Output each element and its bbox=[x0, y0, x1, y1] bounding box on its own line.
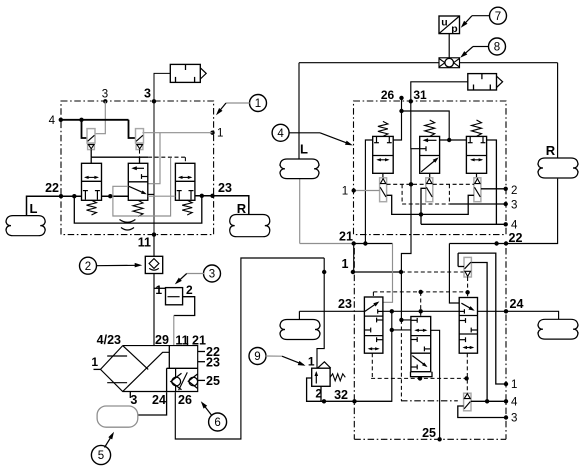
dash-dot pilot row upper (lower block) bbox=[373, 290, 469, 295]
label 26 bbox=[381, 88, 395, 102]
spring above valve C bbox=[472, 120, 482, 136]
svg-text:25: 25 bbox=[206, 374, 220, 388]
wire port 22 to R bellows bbox=[506, 179, 558, 244]
wire from junction to limiter 9 bbox=[317, 258, 326, 368]
limiter 9 port labels bbox=[308, 355, 323, 401]
label 4 left bbox=[49, 115, 56, 127]
svg-text:31: 31 bbox=[413, 88, 427, 102]
svg-text:8: 8 bbox=[494, 42, 500, 54]
pressure limiting valve 9 bbox=[312, 362, 331, 387]
wire port 24 to lower R bellows bbox=[506, 311, 559, 319]
solenoid S1 block1 bbox=[87, 129, 95, 150]
air cylinder (left, port 3) bbox=[170, 64, 206, 82]
L bellows feed gray wire to port 21 bbox=[300, 179, 354, 244]
svg-text:3: 3 bbox=[511, 200, 517, 212]
pilot C output wire to port 2 bbox=[481, 187, 508, 191]
spring above valve B bbox=[425, 120, 435, 136]
label 3 bold bbox=[144, 87, 151, 101]
dash-dot link 32 to pilots bbox=[401, 400, 458, 402]
solenoid S2 block1 bbox=[136, 129, 144, 150]
port 21-22 bus bbox=[352, 241, 509, 245]
wire comp7 to comp8 bbox=[448, 34, 450, 58]
svg-text:5: 5 bbox=[98, 450, 104, 462]
label 32 bbox=[334, 388, 348, 402]
pilot solenoid below valve B bbox=[426, 173, 433, 201]
lower R air bellows bbox=[538, 319, 578, 339]
callout circle 5 with leader bbox=[91, 432, 114, 465]
wire 24 to reservoir bbox=[138, 392, 167, 415]
dashed pilot row lower bbox=[371, 376, 469, 380]
levelling valve block border (dash-dot) bbox=[61, 101, 214, 235]
svg-text:2: 2 bbox=[186, 283, 193, 297]
svg-text:3: 3 bbox=[209, 269, 215, 281]
label 22 left bbox=[45, 181, 59, 195]
valve D pilot dashed line bbox=[372, 292, 373, 379]
svg-text:7: 7 bbox=[495, 11, 501, 23]
label 21 bbox=[339, 230, 353, 244]
label 23 lower bbox=[338, 297, 352, 311]
gray wire into dryer port 11 bbox=[173, 316, 175, 347]
callout circle 6 with leader bbox=[201, 401, 227, 431]
wire 23 to R bellows bbox=[214, 196, 249, 215]
port 23 bus block1 bbox=[195, 194, 215, 198]
port 4 wire bbox=[59, 118, 136, 138]
spring below valve M bbox=[133, 200, 143, 216]
upper R air bellows (right system) bbox=[538, 143, 578, 178]
test coupling (component 8) bbox=[439, 58, 460, 68]
pilot A to pilot C wire bbox=[387, 195, 474, 214]
port 1 feed from 21 bus bbox=[353, 244, 355, 273]
pilot solenoid H (top right, lower block) bbox=[458, 257, 471, 277]
port 22 bus block1 bbox=[59, 194, 129, 198]
svg-text:23: 23 bbox=[338, 297, 352, 311]
dryer port ticks and labels bbox=[91, 333, 220, 407]
svg-text:22: 22 bbox=[45, 181, 59, 195]
svg-text:11: 11 bbox=[175, 334, 188, 348]
pilot H output wire to port 4 bbox=[471, 263, 489, 404]
wire 22 to L bellows bbox=[27, 196, 62, 215]
svg-text:u: u bbox=[441, 17, 447, 29]
svg-text:4: 4 bbox=[511, 220, 518, 232]
svg-text:1: 1 bbox=[342, 186, 348, 198]
pilot H wrap wire to port 1 bbox=[458, 253, 508, 386]
svg-text:4/23: 4/23 bbox=[97, 333, 121, 347]
spring below valve L bbox=[87, 200, 97, 215]
svg-text:1: 1 bbox=[342, 257, 349, 271]
label 1 lower left bbox=[342, 257, 349, 271]
dryer check valve chamber bbox=[167, 368, 198, 392]
svg-text:21: 21 bbox=[339, 230, 353, 244]
pilot B output wire to port 4 bbox=[419, 188, 426, 224]
pilot solenoid below valve C bbox=[474, 173, 481, 201]
valve R block1 bbox=[175, 163, 195, 200]
svg-text:21: 21 bbox=[192, 334, 206, 348]
wire 11 down to check valve 2 bbox=[153, 235, 155, 257]
svg-text:26: 26 bbox=[381, 88, 395, 102]
svg-text:3: 3 bbox=[511, 413, 517, 425]
label 25 bbox=[422, 426, 436, 440]
wire 23-32 riser bbox=[324, 311, 411, 401]
port labels 2 3 4 right of block4 bbox=[511, 185, 518, 232]
svg-text:2: 2 bbox=[85, 261, 91, 273]
pressure reducer (component 3) bbox=[154, 288, 183, 305]
callout circle 1 with leader bbox=[216, 95, 267, 116]
wire check valve to tee bbox=[153, 274, 155, 347]
label 1 block4 left bbox=[342, 186, 348, 198]
labels 1 2 component 3 bbox=[155, 283, 193, 297]
wire 23 to lower L bellows bbox=[298, 311, 300, 319]
svg-text:R: R bbox=[237, 201, 247, 216]
solenoid outputs to valves bbox=[91, 150, 148, 164]
port 23 row bbox=[299, 309, 508, 313]
svg-text:9: 9 bbox=[254, 351, 260, 363]
R air bellows left system bbox=[230, 201, 270, 237]
port 3 stub gray bbox=[95, 99, 108, 134]
callout circle 7 with leader bbox=[461, 7, 507, 28]
callout circle 3 with leader bbox=[175, 265, 221, 284]
valve B (middle) of block 4 bbox=[420, 136, 440, 173]
svg-text:L: L bbox=[300, 142, 308, 157]
wire 22 bus to valve F top port bbox=[449, 244, 459, 304]
svg-text:p: p bbox=[451, 23, 457, 35]
valve E bottom extension bbox=[411, 372, 433, 379]
svg-text:25: 25 bbox=[422, 426, 436, 440]
svg-text:4: 4 bbox=[511, 397, 518, 409]
callout circle 9 with leader bbox=[249, 348, 306, 366]
valve L block1 bbox=[82, 163, 102, 200]
svg-text:L: L bbox=[30, 201, 38, 216]
dashed pilot line B-C bbox=[433, 183, 474, 185]
dashed pilot line A-B bbox=[387, 182, 426, 186]
svg-text:1: 1 bbox=[217, 128, 223, 140]
port 3 wire block4 bbox=[449, 202, 508, 206]
lower L air bellows bbox=[280, 320, 320, 340]
valve A (left) of block 4 bbox=[373, 136, 394, 173]
limiter 9 bypass wire bbox=[307, 378, 324, 401]
component 3 output wire bbox=[174, 297, 195, 316]
label 3 plain bbox=[102, 89, 108, 101]
svg-text:3: 3 bbox=[144, 87, 151, 101]
air reservoir (component 5) bbox=[97, 406, 138, 427]
callout circle 2 with leader bbox=[80, 257, 143, 274]
valve E (middle) lower block bbox=[411, 317, 431, 372]
label 24 lower bbox=[510, 297, 524, 311]
svg-text:R: R bbox=[546, 143, 556, 158]
svg-text:4: 4 bbox=[49, 115, 56, 127]
valve C right wire to port 4 bus bbox=[487, 140, 497, 224]
svg-text:3: 3 bbox=[102, 89, 108, 101]
spring above valve A bbox=[378, 121, 388, 136]
valve block 4 border (dash-dot) bbox=[354, 101, 507, 235]
pilot G output wire port 4 row bbox=[471, 399, 508, 403]
upper L air bellows (right system) bbox=[280, 142, 319, 179]
svg-text:26: 26 bbox=[178, 393, 192, 407]
check valve (component 2) bbox=[145, 256, 162, 273]
pilot solenoid G (bottom right, lower block) bbox=[464, 393, 471, 411]
dashed pilot to valve R block1 bbox=[148, 157, 185, 163]
valve C (right) of block 4 bbox=[466, 136, 486, 173]
exhaust silencer arcs bbox=[120, 220, 136, 231]
wire 31 down to lower block bbox=[401, 149, 411, 272]
label 22 right bbox=[509, 231, 523, 245]
supply loop wire top bbox=[299, 63, 558, 159]
pilot G left wire to port 3 bbox=[458, 406, 508, 420]
wire 3 supply main bbox=[152, 73, 171, 236]
callout circle 4 with leader bbox=[272, 124, 353, 145]
valve E pilot dashed top bbox=[420, 292, 422, 317]
svg-text:3: 3 bbox=[130, 393, 137, 407]
L air bellows left system bbox=[6, 201, 45, 236]
port 1 gray wire block1 bbox=[142, 131, 214, 184]
label 11 bbox=[138, 236, 151, 250]
spring right of limiter 9 bbox=[330, 374, 345, 381]
label 1 block1 bbox=[217, 128, 223, 140]
valve D (left) lower block bbox=[364, 297, 383, 353]
gray pilot loop around valve M bbox=[113, 158, 175, 216]
svg-text:1: 1 bbox=[255, 98, 261, 110]
labels 1 4 3 right lower bbox=[511, 379, 518, 425]
svg-text:22: 22 bbox=[509, 231, 523, 245]
lower valve block border (dash-dot) bbox=[354, 248, 506, 439]
svg-text:29: 29 bbox=[155, 333, 169, 347]
svg-text:4: 4 bbox=[277, 128, 284, 140]
svg-text:1: 1 bbox=[308, 355, 315, 369]
port 1 row lower block bbox=[351, 270, 464, 274]
svg-text:1: 1 bbox=[155, 283, 162, 297]
svg-text:1: 1 bbox=[511, 379, 517, 391]
svg-text:23: 23 bbox=[206, 356, 220, 370]
valve F pilot dashed lines bbox=[466, 292, 468, 393]
feed wire to valve E bbox=[399, 272, 411, 401]
label 31 bbox=[413, 88, 427, 102]
svg-text:2: 2 bbox=[511, 185, 517, 197]
exhaust bus block1 bbox=[74, 196, 202, 223]
svg-text:32: 32 bbox=[334, 388, 348, 402]
svg-text:23: 23 bbox=[218, 181, 232, 195]
svg-text:6: 6 bbox=[214, 417, 220, 429]
pilot solenoid below valve A bbox=[380, 173, 387, 201]
wire dryer port 26 to lower block port 1 bbox=[175, 258, 324, 439]
valve M block1 bbox=[128, 163, 154, 200]
gray pilot wire to valve D bbox=[383, 244, 393, 303]
spring below valve R bbox=[182, 200, 192, 215]
air cylinder (right, port 31) bbox=[468, 74, 503, 90]
svg-text:24: 24 bbox=[510, 297, 524, 311]
pressure sensor U/P (component 7) bbox=[439, 16, 460, 35]
callout circle 8 with leader bbox=[460, 38, 505, 58]
port 26 stub and wire bbox=[393, 96, 466, 142]
port 32 row bbox=[322, 399, 392, 403]
label 23 block1 bbox=[218, 181, 232, 195]
svg-text:1: 1 bbox=[91, 355, 98, 369]
pilot H vent dashed bbox=[467, 277, 469, 292]
port 4 wire block4 bbox=[421, 222, 508, 226]
wire 31 from cylinder to valve block bbox=[409, 82, 468, 149]
wire valve A left to port 21 bus bbox=[365, 140, 372, 244]
air dryer (4/23) outline bbox=[101, 346, 198, 392]
dashed drop to port 3 line bbox=[402, 184, 449, 204]
valve F (right) lower block bbox=[459, 298, 477, 354]
port 1 gray pilot wire block4 bbox=[352, 188, 380, 192]
svg-text:24: 24 bbox=[152, 393, 166, 407]
valve E output to port 25 bbox=[431, 330, 442, 441]
svg-text:11: 11 bbox=[138, 236, 151, 250]
dryer inner lines bbox=[107, 346, 198, 392]
